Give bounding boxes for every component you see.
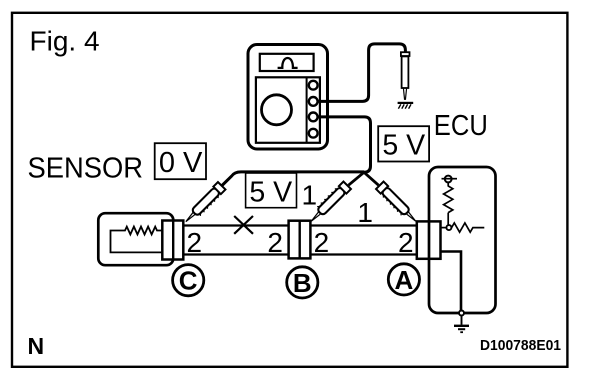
- svg-text:2: 2: [267, 227, 283, 258]
- svg-text:1: 1: [302, 179, 318, 210]
- svg-text:N: N: [28, 333, 45, 359]
- svg-text:1: 1: [357, 197, 373, 228]
- svg-text:C: C: [179, 266, 198, 296]
- svg-text:2: 2: [187, 227, 203, 258]
- svg-text:5 V: 5 V: [382, 130, 425, 162]
- svg-text:B: B: [293, 268, 312, 298]
- svg-text:2: 2: [314, 227, 330, 258]
- svg-text:ECU: ECU: [434, 110, 488, 142]
- svg-text:A: A: [395, 265, 414, 295]
- svg-text:Fig. 4: Fig. 4: [30, 26, 100, 57]
- svg-text:0 V: 0 V: [159, 147, 203, 179]
- svg-text:2: 2: [398, 227, 414, 258]
- svg-text:D100788E01: D100788E01: [480, 337, 561, 354]
- svg-text:5 V: 5 V: [249, 176, 292, 208]
- svg-text:SENSOR: SENSOR: [28, 153, 144, 185]
